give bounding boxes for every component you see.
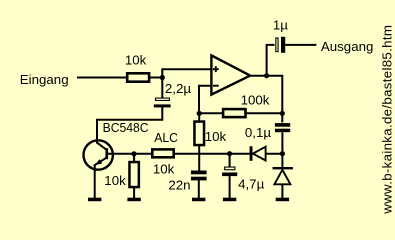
transistor Q1 BC548C — [84, 139, 113, 170]
svg-text:1µ: 1µ — [273, 17, 288, 32]
capacitor C4 0,1µ — [275, 123, 290, 132]
wire node X up and right to op-amp + input — [162, 69, 211, 77]
capacitor C3 1µ electrolytic horizontal — [276, 37, 285, 53]
svg-text:10k: 10k — [104, 173, 126, 188]
ground under emitter — [88, 198, 101, 202]
ground under R4 — [127, 198, 140, 202]
wire R2 to C2 — [198, 145, 200, 172]
svg-text:10k: 10k — [125, 52, 147, 67]
wire node A to R2 — [198, 113, 200, 121]
svg-text:BC548C: BC548C — [103, 120, 149, 135]
node D junction dot (4,7µ top) — [227, 151, 232, 156]
wire C2 to ground — [198, 180, 200, 199]
capacitor C1 2,2µ electrolytic — [154, 98, 171, 107]
output junction dot — [264, 73, 269, 78]
wire transistor base to node dot — [108, 153, 134, 155]
op-amp U1 — [211, 55, 250, 94]
node C junction dot — [280, 151, 285, 156]
svg-text:10k: 10k — [153, 162, 175, 177]
wire C1 down and left to transistor collector — [97, 106, 162, 140]
svg-text:Eingang: Eingang — [20, 72, 69, 87]
node B junction dot — [280, 111, 285, 116]
svg-text:10k: 10k — [205, 129, 227, 144]
wire base node to R4 — [133, 154, 135, 162]
resistor R4 10k vertical under base — [129, 162, 138, 187]
svg-text:22n: 22n — [168, 178, 190, 193]
node A junction dot — [197, 111, 202, 116]
wire R1 to node X — [150, 77, 163, 79]
wire C5 to ground — [229, 176, 231, 198]
capacitor C5 4,7µ electrolytic — [222, 167, 237, 176]
node X junction dot — [160, 75, 165, 80]
wire R4 to ground — [133, 187, 135, 199]
wire node B to C4 — [281, 113, 283, 122]
resistor R2 10k vertical — [194, 122, 204, 146]
wire output dot right and down to node B — [267, 76, 283, 114]
wire C3 to Ausgang — [285, 44, 316, 46]
resistor R5 100k horizontal — [223, 109, 245, 117]
svg-text:4,7µ: 4,7µ — [238, 177, 264, 192]
wire input to R1 — [77, 77, 127, 79]
wire node D to C5 — [229, 154, 231, 168]
diode D1 horizontal — [250, 146, 266, 161]
wire op-amp minus input down to node A — [199, 86, 212, 114]
wire D2 anode to ground — [281, 184, 283, 198]
node base junction dot — [131, 151, 136, 156]
wire C4 to node C — [281, 132, 283, 153]
wire op-amp output to dot — [249, 75, 266, 77]
wire D1 anode to node C — [266, 153, 283, 155]
svg-text:2,2µ: 2,2µ — [165, 81, 191, 96]
svg-text:100k: 100k — [241, 93, 270, 108]
svg-text:Ausgang: Ausgang — [321, 39, 374, 54]
wire base node to R3 — [134, 153, 153, 155]
wire node A to R5 — [199, 112, 222, 114]
ground under D2 — [276, 198, 289, 202]
svg-text:www.b-kainka.de/bastel85.htm: www.b-kainka.de/bastel85.htm — [380, 25, 395, 215]
ground under C2 — [192, 198, 205, 202]
capacitor C2 22n — [191, 171, 207, 181]
wire R3 to 4,7µ node (crosses x=198 column without dot) — [174, 153, 230, 155]
wire emitter to ground — [94, 165, 96, 199]
wire node D to D1 cathode — [230, 153, 250, 155]
wire node X to C1 — [161, 78, 163, 99]
resistor R3 ALC 10k horizontal — [152, 149, 173, 157]
wire R5 to node B — [246, 112, 282, 114]
wire output dot up to C3 — [267, 45, 275, 76]
resistor R1 10k horizontal — [127, 73, 149, 81]
diode D2 vertical — [273, 167, 293, 184]
wire node C to D2 cathode — [281, 154, 283, 169]
ground under C5 — [223, 198, 236, 202]
svg-text:0,1µ: 0,1µ — [245, 125, 271, 140]
svg-text:ALC: ALC — [154, 130, 178, 145]
